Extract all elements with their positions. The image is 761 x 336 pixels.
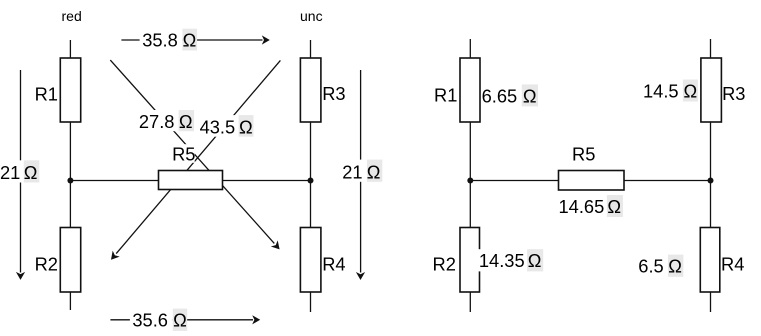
value 14.5 ohm (R3 right circuit)	[643, 80, 698, 102]
svg-text:14.65: 14.65	[559, 196, 605, 217]
resistor R4 (left circuit)	[300, 228, 321, 293]
resistor R5 (right circuit)	[559, 171, 625, 191]
arrow 21 left: vertical arrow	[16, 70, 25, 280]
svg-text:R4: R4	[721, 254, 744, 275]
svg-text:Ω: Ω	[173, 309, 187, 330]
svg-text:R1: R1	[35, 83, 58, 104]
resistor R3 (right circuit)	[701, 58, 722, 122]
wire right branch top	[310, 40, 312, 58]
resistor R4 (right circuit)	[700, 228, 720, 293]
svg-text:6.5: 6.5	[638, 256, 663, 277]
node B (left circuit right junction)	[308, 178, 314, 184]
svg-text:red: red	[62, 8, 82, 24]
svg-text:unc: unc	[300, 8, 323, 24]
wire left branch top	[69, 40, 71, 58]
svg-text:43.5: 43.5	[200, 117, 236, 138]
svg-text:35.8: 35.8	[142, 29, 178, 50]
value 21 ohm (right vertical arrow label)	[342, 160, 383, 183]
svg-text:R2: R2	[433, 254, 456, 275]
svg-text:R5: R5	[572, 144, 595, 165]
wire left branch bottom	[69, 292, 71, 310]
svg-text:6.65: 6.65	[482, 85, 518, 106]
arrow 35.6: bottom horizontal arrow	[110, 315, 260, 324]
svg-text:27.8: 27.8	[139, 111, 175, 132]
wire right branch bottom (right circuit)	[710, 292, 712, 312]
svg-text:35.6: 35.6	[132, 309, 168, 330]
label R5 (left circuit)	[171, 143, 196, 164]
wire horizontal right of R5 (right circuit)	[624, 180, 711, 182]
svg-text:14.5: 14.5	[643, 81, 679, 102]
wire horizontal left of R5 (right circuit)	[470, 180, 558, 182]
resistor R5 (left circuit)	[159, 171, 223, 190]
value 14.35 ohm (R2 right circuit)	[478, 249, 544, 271]
svg-text:R3: R3	[722, 83, 745, 104]
wire left branch bottom (right circuit)	[469, 292, 471, 312]
resistor R1 (right circuit)	[460, 58, 480, 122]
node C (right circuit left junction)	[467, 178, 473, 184]
svg-text:R4: R4	[322, 254, 345, 275]
wire right branch top (right circuit)	[710, 39, 712, 58]
svg-text:Ω: Ω	[239, 117, 253, 138]
svg-text:Ω: Ω	[24, 162, 38, 183]
svg-text:21: 21	[0, 162, 20, 183]
arrow 35.8: top horizontal arrow red to unc	[121, 35, 269, 44]
svg-text:R2: R2	[35, 254, 58, 275]
svg-text:Ω: Ω	[528, 250, 542, 271]
wire right branch middle	[310, 122, 312, 228]
svg-text:R5: R5	[172, 143, 195, 164]
svg-text:R1: R1	[434, 85, 457, 106]
node D (right circuit right junction)	[708, 178, 714, 184]
svg-text:Ω: Ω	[668, 256, 682, 277]
value 21 ohm (left vertical arrow label)	[0, 160, 39, 183]
arrow 27.8: diagonal arrow top-left to bottom-right	[110, 60, 279, 249]
resistor R3 (left circuit)	[300, 58, 321, 122]
wire horizontal left of R5	[70, 180, 158, 182]
resistor R2 (left circuit)	[60, 228, 80, 293]
value 6.65 ohm (R1 right circuit)	[482, 84, 538, 106]
wire left branch middle (right circuit)	[469, 122, 471, 228]
wire left branch middle	[69, 122, 71, 228]
svg-text:Ω: Ω	[684, 81, 698, 102]
svg-text:Ω: Ω	[183, 29, 197, 50]
value 43.5 ohm (diagonal arrow label)	[197, 115, 254, 138]
wire right branch middle (right circuit)	[710, 122, 712, 228]
value 27.8 ohm (diagonal arrow label)	[137, 110, 194, 132]
wire right branch bottom	[310, 292, 312, 312]
svg-text:Ω: Ω	[367, 161, 381, 182]
arrow 21 right: vertical arrow	[356, 70, 365, 280]
svg-text:14.35: 14.35	[479, 250, 525, 271]
wire horizontal right of R5	[223, 180, 311, 182]
wire left branch top (right circuit)	[469, 39, 471, 58]
value 14.65 ohm (R5 right circuit)	[559, 195, 623, 217]
svg-text:Ω: Ω	[607, 196, 621, 217]
svg-text:Ω: Ω	[179, 111, 193, 132]
svg-text:Ω: Ω	[523, 85, 537, 106]
resistor R2 (right circuit)	[460, 228, 480, 293]
value 35.6 ohm (bottom arrow label)	[130, 309, 187, 331]
svg-text:21: 21	[342, 161, 362, 182]
arrow 43.5: diagonal arrow top-right to bottom-left	[111, 60, 280, 259]
node A (left circuit left junction)	[67, 178, 73, 184]
resistor R1 (left circuit)	[60, 58, 80, 122]
value 6.5 ohm (R4 right circuit)	[638, 255, 683, 277]
svg-text:R3: R3	[322, 83, 345, 104]
value 35.8 ohm (top arrow label)	[140, 29, 197, 51]
